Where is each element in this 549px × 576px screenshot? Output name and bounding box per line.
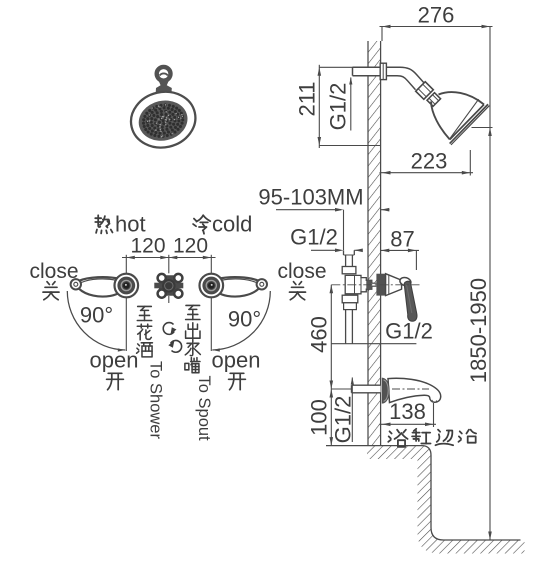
svg-text:211: 211: [295, 81, 320, 116]
svg-text:To Shower: To Shower: [147, 361, 165, 439]
svg-text:223: 223: [411, 149, 448, 174]
svg-text:open: open: [212, 348, 261, 373]
svg-text:276: 276: [418, 2, 455, 27]
svg-text:G1/2: G1/2: [385, 319, 433, 344]
svg-text:460: 460: [307, 316, 332, 353]
svg-text:hot: hot: [115, 212, 146, 237]
svg-text:close: close: [277, 260, 326, 283]
svg-text:90°: 90°: [228, 307, 261, 332]
svg-text:close: close: [29, 260, 78, 283]
svg-text:120: 120: [173, 235, 208, 258]
svg-text:cold: cold: [212, 212, 252, 237]
svg-text:To Spout: To Spout: [195, 376, 213, 442]
svg-text:G1/2: G1/2: [290, 225, 338, 250]
svg-text:100: 100: [307, 399, 332, 436]
svg-text:90°: 90°: [80, 303, 113, 328]
svg-text:G1/2: G1/2: [326, 83, 351, 131]
svg-text:87: 87: [390, 227, 414, 252]
svg-text:120: 120: [130, 235, 165, 258]
svg-text:1850-1950: 1850-1950: [466, 278, 491, 383]
svg-text:138: 138: [389, 399, 426, 424]
svg-text:95-103MM: 95-103MM: [258, 185, 363, 210]
svg-text:open: open: [90, 348, 139, 373]
